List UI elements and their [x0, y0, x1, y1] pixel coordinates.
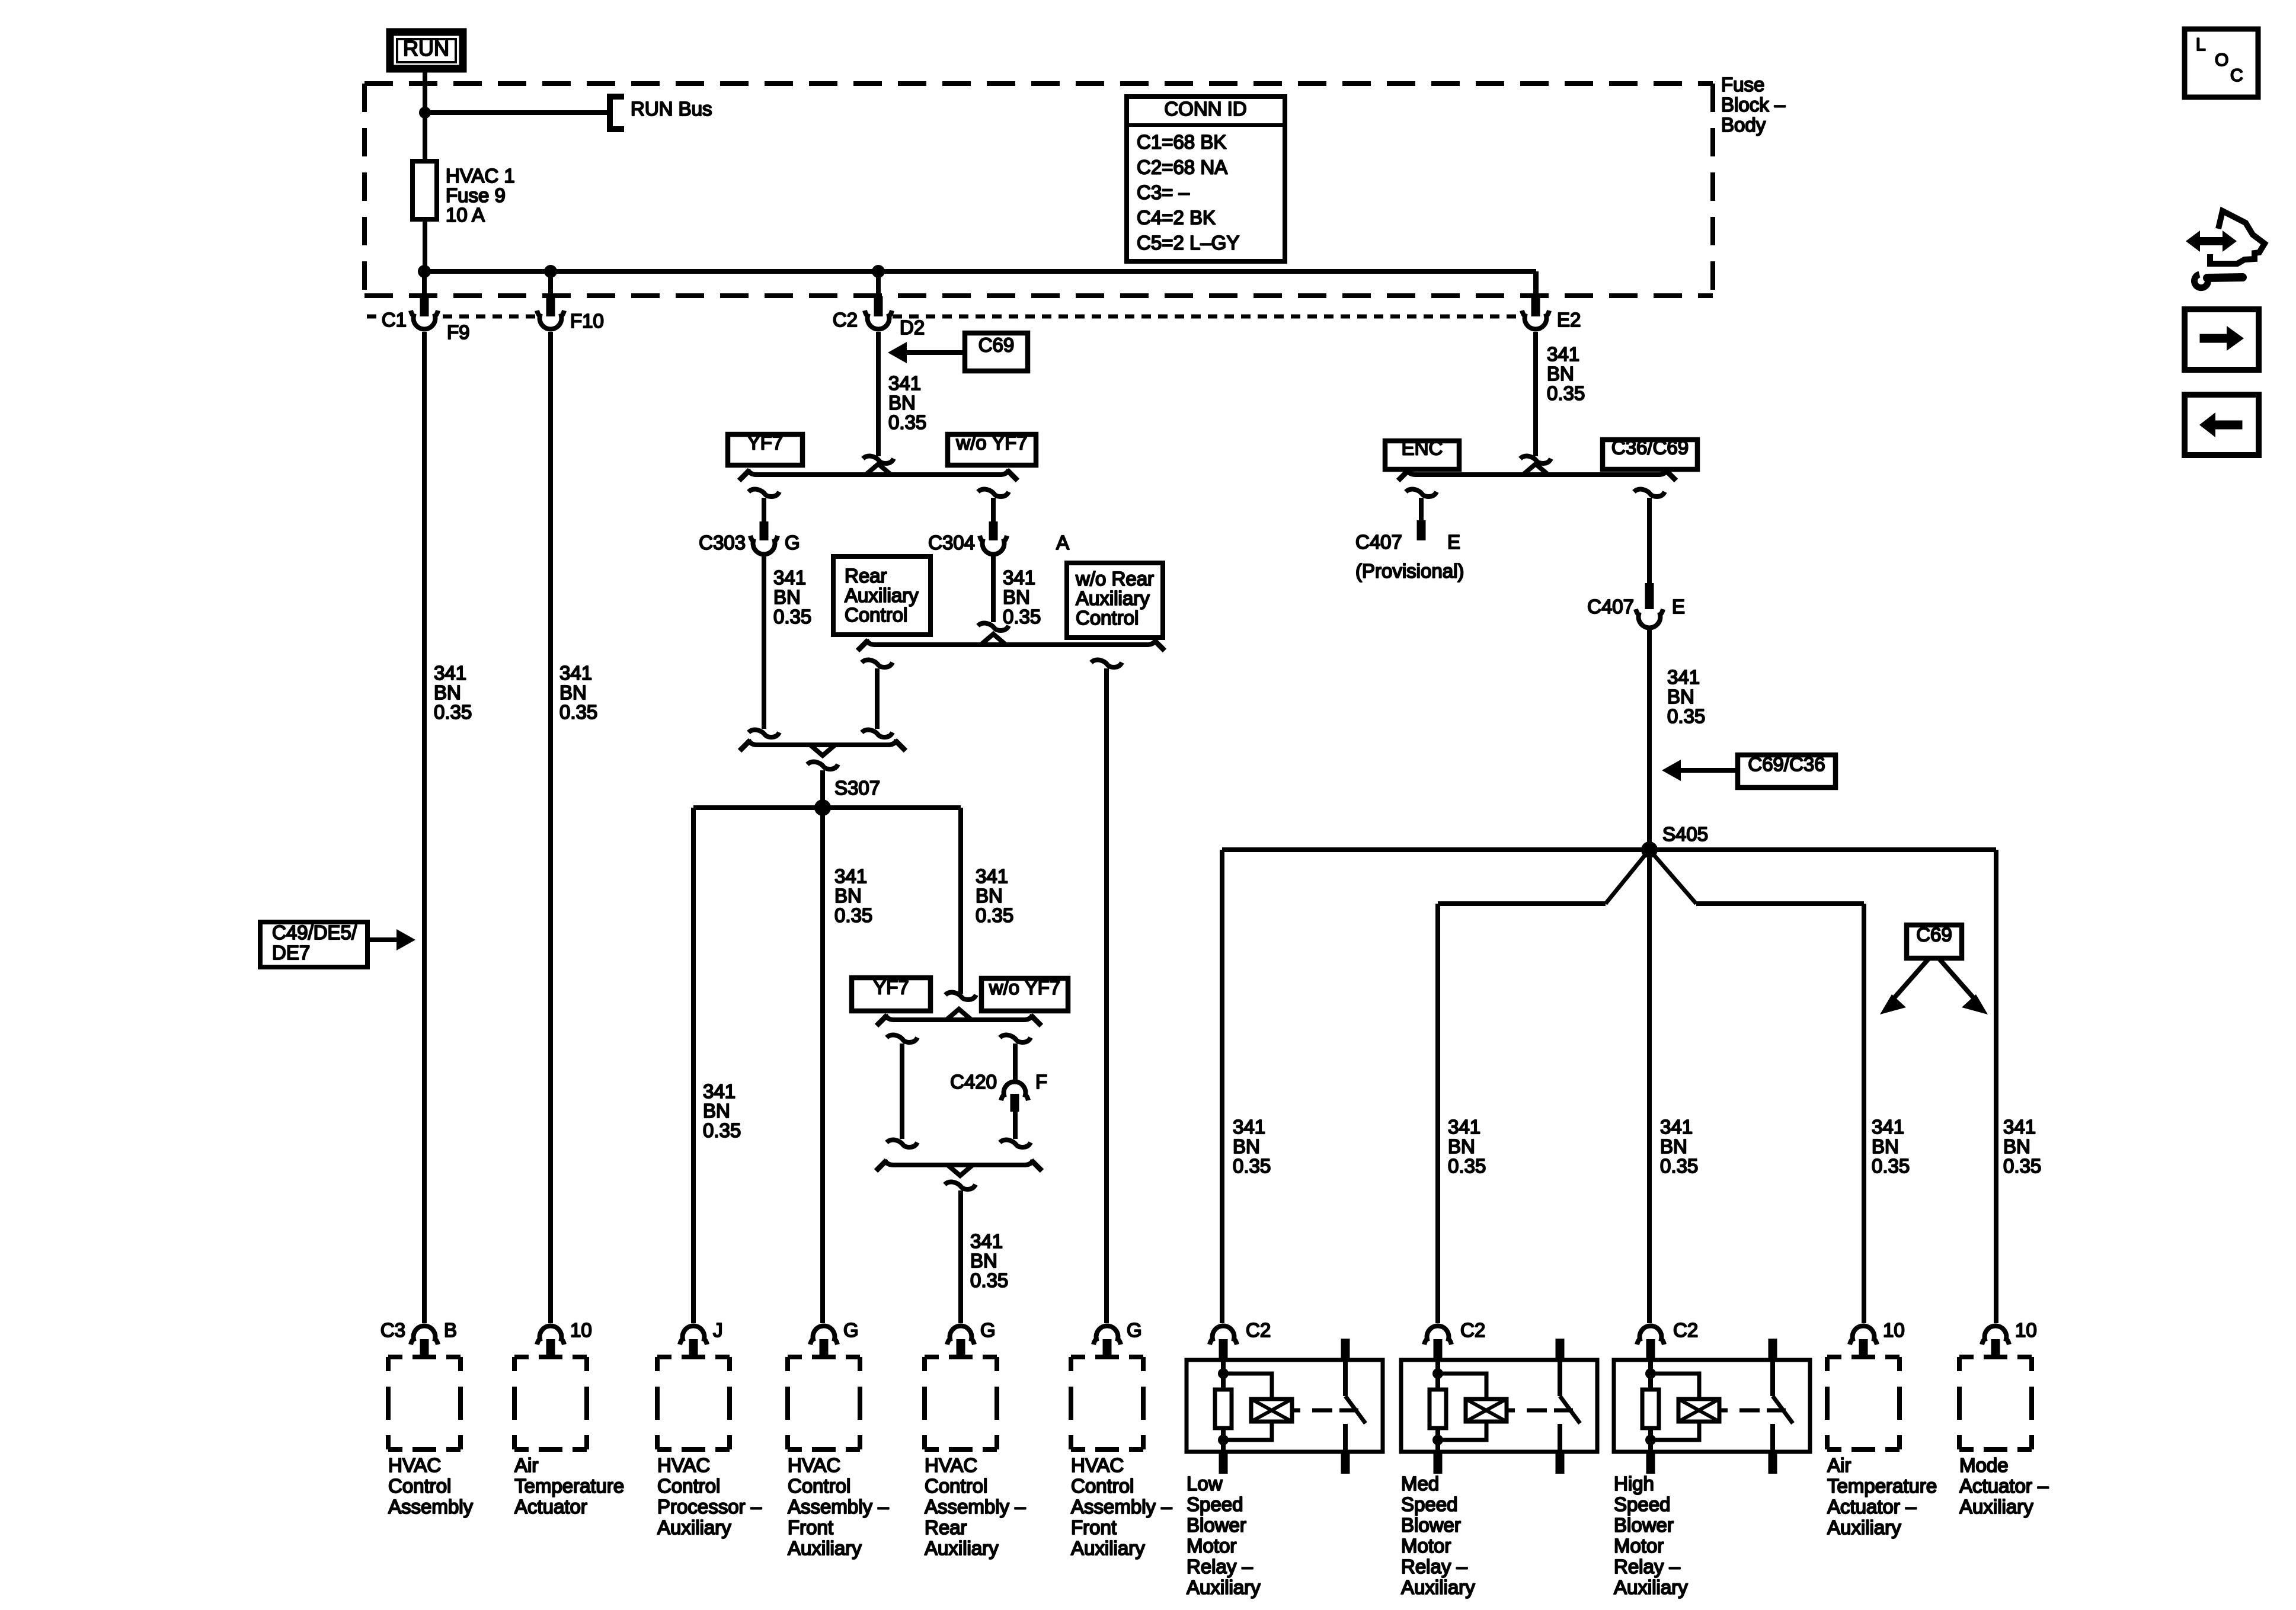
box YF7: [728, 434, 802, 465]
svg-text:ENC: ENC: [1402, 437, 1443, 459]
component HVAC Control Assembly: [411, 1326, 438, 1345]
arrow from C69: [907, 350, 965, 355]
arrow C69/C36: [1681, 768, 1738, 773]
wire S307 right branch: [958, 808, 963, 994]
svg-text:C1=68 BK: C1=68 BK: [1137, 131, 1226, 153]
svg-text:0.35: 0.35: [1547, 382, 1585, 404]
svg-text:Motor: Motor: [1614, 1535, 1664, 1557]
connector F10: [548, 271, 553, 297]
svg-text:Low: Low: [1187, 1473, 1223, 1494]
wire RUN Bus: [425, 110, 607, 115]
svg-text:0.35: 0.35: [1872, 1155, 1910, 1177]
svg-text:BN: BN: [970, 1250, 997, 1272]
svg-text:Speed: Speed: [1187, 1493, 1243, 1515]
fuse block bus wire: [424, 269, 1536, 274]
svg-text:Processor –: Processor –: [657, 1496, 762, 1518]
svg-text:Assembly –: Assembly –: [788, 1496, 889, 1518]
svg-text:C49/DE5/: C49/DE5/: [272, 921, 357, 943]
svg-text:E2: E2: [1557, 309, 1581, 331]
arrow C49/DE5/DE7: [260, 922, 367, 967]
svg-text:Relay –: Relay –: [1401, 1555, 1468, 1577]
branch ENC provisional: [1406, 489, 1437, 497]
wire RUN feed: [423, 71, 427, 161]
wire S405 to Mode Actuator Aux: [1994, 850, 1998, 1323]
svg-text:w/o YF7: w/o YF7: [955, 432, 1027, 454]
svg-text:C: C: [2230, 66, 2243, 85]
wire S405 to Med Speed relay: [1606, 850, 1649, 904]
box C69: [965, 333, 1028, 371]
svg-text:Auxiliary: Auxiliary: [1614, 1576, 1688, 1598]
svg-text:341: 341: [976, 865, 1008, 887]
svg-text:C2: C2: [833, 309, 858, 331]
svg-text:Auxiliary: Auxiliary: [1187, 1576, 1261, 1598]
fuse HVAC 1 Fuse 9 10 A: [423, 161, 427, 271]
svg-text:BN: BN: [559, 681, 587, 703]
box w/o Rear Auxiliary Control: [1067, 563, 1163, 638]
svg-text:C3= –: C3= –: [1137, 181, 1190, 203]
svg-text:Auxiliary: Auxiliary: [657, 1516, 731, 1538]
ignition RUN box: [390, 32, 463, 69]
svg-text:L: L: [2196, 35, 2206, 55]
svg-text:341: 341: [434, 662, 466, 684]
connector C1: [422, 271, 427, 297]
svg-text:BN: BN: [2003, 1135, 2030, 1157]
svg-text:C5=2 L–GY: C5=2 L–GY: [1137, 232, 1239, 254]
svg-text:C3: C3: [380, 1319, 405, 1341]
svg-text:O: O: [2215, 50, 2228, 70]
svg-text:Fuse 9: Fuse 9: [446, 184, 506, 206]
svg-text:Speed: Speed: [1614, 1493, 1670, 1515]
svg-text:10: 10: [1883, 1319, 1905, 1341]
svg-text:Actuator: Actuator: [514, 1496, 587, 1518]
branch w/o Rear Aux to HVAC Front Auxiliary: [1091, 660, 1122, 668]
fuse block body dashed box: [364, 84, 1713, 296]
svg-text:E: E: [1447, 531, 1460, 553]
svg-text:Med: Med: [1401, 1473, 1439, 1494]
svg-text:BN: BN: [1233, 1135, 1260, 1157]
svg-text:Blower: Blower: [1614, 1514, 1674, 1536]
relay High Speed Blower Motor Relay Auxiliary: [1637, 1326, 1664, 1345]
component HVAC Control Assembly Rear Auxiliary: [947, 1326, 974, 1345]
svg-text:BN: BN: [703, 1100, 730, 1122]
svg-text:BN: BN: [1667, 686, 1694, 708]
box C36/C69: [1603, 440, 1697, 469]
branch YF7 wire: [887, 1035, 917, 1043]
diagnostic icon outline: [2210, 211, 2265, 264]
diagnostic icon wrench: [2207, 277, 2243, 278]
svg-text:F: F: [1035, 1071, 1047, 1093]
svg-text:Auxiliary: Auxiliary: [845, 584, 919, 606]
svg-text:C69: C69: [1916, 924, 1952, 946]
svg-text:0.35: 0.35: [434, 701, 472, 723]
svg-text:Actuator –: Actuator –: [1827, 1496, 1917, 1518]
svg-text:0.35: 0.35: [834, 904, 872, 926]
wire F10 to Air Temperature Actuator: [548, 332, 553, 1323]
svg-text:0.35: 0.35: [703, 1119, 741, 1141]
svg-text:J: J: [713, 1319, 723, 1341]
component HVAC Control Assembly Front Auxiliary: [810, 1326, 837, 1345]
merge brace into S307: [749, 740, 897, 745]
svg-text:341: 341: [1547, 343, 1579, 365]
svg-text:0.35: 0.35: [773, 606, 811, 628]
svg-text:Auxiliary: Auxiliary: [788, 1537, 862, 1559]
svg-text:DE7: DE7: [272, 942, 310, 964]
svg-text:Front: Front: [788, 1516, 833, 1538]
arrows from C69: [1894, 958, 1929, 998]
svg-text:HVAC: HVAC: [1071, 1454, 1124, 1476]
connector C407: [1636, 609, 1663, 628]
svg-text:Auxiliary: Auxiliary: [1076, 587, 1150, 609]
svg-text:341: 341: [773, 566, 806, 588]
svg-text:341: 341: [1448, 1116, 1480, 1138]
svg-text:Auxiliary: Auxiliary: [1401, 1576, 1475, 1598]
svg-text:HVAC: HVAC: [657, 1454, 710, 1476]
wire break curl: [863, 456, 894, 464]
svg-text:Auxiliary: Auxiliary: [925, 1537, 999, 1559]
svg-text:BN: BN: [834, 885, 862, 907]
component Air Temperature Actuator Auxiliary: [1850, 1326, 1877, 1345]
svg-text:Assembly –: Assembly –: [1071, 1496, 1172, 1518]
svg-text:C407: C407: [1587, 596, 1634, 617]
svg-text:341: 341: [1660, 1116, 1693, 1138]
option brace Rear Aux / wo Rear Aux: [866, 639, 1156, 645]
wire S405 to Low Speed relay: [1220, 850, 1224, 1323]
wire C1 to HVAC Control Assembly: [422, 332, 427, 1323]
component Mode Actuator Auxiliary: [1982, 1326, 2009, 1345]
svg-text:Control: Control: [1071, 1475, 1134, 1497]
svg-text:341: 341: [834, 865, 867, 887]
svg-text:341: 341: [888, 372, 921, 394]
svg-text:C1: C1: [382, 309, 407, 331]
component HVAC Control Assembly Front Auxiliary 2: [1093, 1326, 1121, 1345]
branch w/o YF7 via C420: [1000, 1035, 1031, 1043]
wire C2 down: [876, 332, 881, 456]
option brace YF7 / wo YF7: [748, 469, 1009, 475]
svg-text:Auxiliary: Auxiliary: [1071, 1537, 1145, 1559]
svg-text:341: 341: [2003, 1116, 2036, 1138]
connector E2: [1533, 271, 1538, 297]
junction dot C2: [872, 265, 885, 278]
svg-text:Mode: Mode: [1959, 1454, 2009, 1476]
svg-text:CONN ID: CONN ID: [1164, 98, 1246, 120]
svg-text:Motor: Motor: [1187, 1535, 1236, 1557]
svg-text:Block –: Block –: [1721, 94, 1786, 116]
svg-text:B: B: [444, 1319, 457, 1341]
svg-text:0.35: 0.35: [1448, 1155, 1486, 1177]
wire to HVAC Rear Auxiliary: [958, 1190, 963, 1323]
svg-text:BN: BN: [1448, 1135, 1475, 1157]
svg-text:RUN: RUN: [403, 36, 449, 60]
svg-text:HVAC: HVAC: [925, 1454, 977, 1476]
svg-text:Fuse: Fuse: [1721, 73, 1764, 95]
svg-text:0.35: 0.35: [559, 701, 597, 723]
svg-text:S307: S307: [834, 777, 880, 799]
box w/o YF7: [948, 434, 1036, 465]
svg-text:Speed: Speed: [1401, 1493, 1457, 1515]
svg-text:HVAC 1: HVAC 1: [446, 165, 515, 187]
svg-text:BN: BN: [1003, 586, 1030, 608]
connector C2: [876, 271, 881, 297]
svg-text:S405: S405: [1662, 823, 1708, 845]
connector C420: [1001, 1082, 1028, 1100]
wire S405 to Air Temp Actuator Aux: [1649, 850, 1696, 904]
branch C303 (YF7): [749, 489, 779, 497]
svg-text:C36/C69: C36/C69: [1611, 437, 1689, 459]
svg-text:BN: BN: [888, 392, 916, 414]
svg-text:C304: C304: [928, 532, 975, 553]
svg-text:BN: BN: [1547, 363, 1574, 385]
junction RUN Bus: [419, 107, 431, 119]
svg-text:C420: C420: [950, 1071, 997, 1093]
svg-text:341: 341: [1233, 1116, 1265, 1138]
svg-text:Control: Control: [925, 1475, 987, 1497]
svg-text:Auxiliary: Auxiliary: [1959, 1496, 2033, 1518]
svg-text:C407: C407: [1355, 531, 1402, 553]
component HVAC Control Processor Auxiliary: [680, 1326, 707, 1345]
svg-text:w/o Rear: w/o Rear: [1075, 568, 1154, 590]
svg-text:341: 341: [1003, 566, 1035, 588]
svg-text:341: 341: [703, 1080, 736, 1102]
svg-text:F9: F9: [447, 321, 470, 343]
option brace ENC / C36C69: [1407, 469, 1667, 475]
box ENC: [1385, 441, 1459, 469]
box YF7 2: [852, 978, 930, 1011]
svg-text:BN: BN: [434, 681, 461, 703]
svg-text:Blower: Blower: [1401, 1514, 1461, 1536]
svg-text:Temperature: Temperature: [514, 1475, 624, 1497]
option brace YF7 second: [885, 1014, 1032, 1020]
svg-text:HVAC: HVAC: [388, 1454, 441, 1476]
junction dot F10: [544, 265, 557, 278]
svg-text:341: 341: [1667, 666, 1700, 688]
svg-text:Assembly –: Assembly –: [925, 1496, 1026, 1518]
merge brace below C420: [885, 1160, 1033, 1165]
svg-text:0.35: 0.35: [888, 411, 926, 433]
svg-text:C303: C303: [699, 532, 746, 553]
component Air Temperature Actuator: [537, 1326, 564, 1345]
svg-text:G: G: [843, 1319, 859, 1341]
svg-text:YF7: YF7: [747, 432, 784, 454]
svg-text:341: 341: [559, 662, 592, 684]
svg-text:Actuator –: Actuator –: [1959, 1475, 2049, 1497]
svg-text:10 A: 10 A: [446, 204, 485, 226]
svg-text:w/o YF7: w/o YF7: [989, 977, 1060, 998]
svg-text:High: High: [1614, 1473, 1654, 1494]
svg-text:BN: BN: [1660, 1135, 1687, 1157]
svg-text:0.35: 0.35: [1667, 705, 1705, 727]
connector C303: [750, 536, 778, 554]
svg-text:Air: Air: [514, 1454, 538, 1476]
RUN Bus terminal: [610, 97, 624, 129]
svg-text:Motor: Motor: [1401, 1535, 1451, 1557]
svg-text:BN: BN: [976, 885, 1003, 907]
svg-text:0.35: 0.35: [1003, 606, 1041, 628]
svg-text:BN: BN: [773, 586, 801, 608]
svg-text:F10: F10: [570, 310, 604, 332]
svg-text:Relay –: Relay –: [1187, 1555, 1253, 1577]
svg-text:G: G: [1127, 1319, 1142, 1341]
svg-text:Control: Control: [657, 1475, 720, 1497]
svg-text:C2: C2: [1246, 1319, 1271, 1341]
forward arrow icon: [2185, 309, 2259, 370]
wire S405 to High Speed relay: [1647, 850, 1652, 1323]
svg-text:0.35: 0.35: [2003, 1155, 2041, 1177]
svg-text:341: 341: [1872, 1116, 1904, 1138]
CONN ID table: [1127, 97, 1285, 261]
svg-text:Control: Control: [845, 604, 907, 626]
svg-text:Rear: Rear: [925, 1516, 967, 1538]
svg-text:C69: C69: [978, 334, 1015, 356]
svg-text:RUN Bus: RUN Bus: [631, 98, 712, 120]
svg-text:Relay –: Relay –: [1614, 1555, 1681, 1577]
connector C304: [980, 536, 1007, 554]
box C69/C36: [1738, 755, 1835, 788]
svg-text:A: A: [1056, 532, 1069, 553]
svg-text:Auxiliary: Auxiliary: [1827, 1516, 1901, 1538]
box C69 lower: [1907, 925, 1962, 958]
svg-text:G: G: [785, 532, 800, 553]
svg-text:10: 10: [2015, 1319, 2037, 1341]
svg-text:Assembly: Assembly: [388, 1496, 474, 1518]
junction dot C1: [418, 265, 431, 278]
svg-text:C2: C2: [1460, 1319, 1485, 1341]
svg-text:Air: Air: [1827, 1454, 1851, 1476]
back arrow icon: [2185, 395, 2259, 455]
svg-text:0.35: 0.35: [976, 904, 1013, 926]
wire E2 down: [1533, 332, 1538, 456]
svg-text:C2=68 NA: C2=68 NA: [1137, 156, 1227, 178]
wire S307 to HVAC Control Processor: [691, 808, 696, 1323]
svg-text:341: 341: [970, 1230, 1003, 1252]
svg-text:0.35: 0.35: [1233, 1155, 1271, 1177]
box w/o YF7 2: [981, 978, 1068, 1011]
LOC icon: [2185, 29, 2258, 97]
svg-text:(Provisional): (Provisional): [1355, 560, 1464, 582]
svg-text:Control: Control: [788, 1475, 850, 1497]
branch C304 (w/o YF7): [978, 489, 1009, 497]
svg-text:Temperature: Temperature: [1827, 1475, 1937, 1497]
svg-text:Front: Front: [1071, 1516, 1117, 1538]
svg-text:Blower: Blower: [1187, 1514, 1246, 1536]
svg-text:E: E: [1672, 596, 1685, 617]
svg-text:0.35: 0.35: [1660, 1155, 1698, 1177]
svg-text:C4=2 BK: C4=2 BK: [1137, 207, 1216, 229]
relay Low Speed Blower Motor Relay Auxiliary: [1210, 1326, 1237, 1345]
svg-text:Rear: Rear: [845, 565, 887, 587]
svg-text:Body: Body: [1721, 114, 1766, 136]
branch left of rear-aux option: [862, 660, 893, 668]
svg-text:10: 10: [570, 1319, 592, 1341]
relay Med Speed Blower Motor Relay Auxiliary: [1424, 1326, 1451, 1345]
connector line dotted: [367, 315, 1518, 319]
diagnostic icon double arrow: [2186, 231, 2237, 252]
svg-text:YF7: YF7: [873, 977, 909, 998]
svg-text:HVAC: HVAC: [788, 1454, 840, 1476]
svg-text:BN: BN: [1872, 1135, 1899, 1157]
branch C36/C69: [1634, 489, 1665, 497]
svg-text:Control: Control: [1076, 607, 1139, 629]
svg-text:0.35: 0.35: [970, 1269, 1008, 1291]
wire S307 to HVAC Front Auxiliary: [820, 808, 825, 1323]
svg-text:C69/C36: C69/C36: [1748, 753, 1825, 775]
svg-text:Control: Control: [388, 1475, 451, 1497]
box Rear Auxiliary Control: [833, 556, 930, 635]
svg-text:D2: D2: [900, 316, 925, 338]
svg-text:C2: C2: [1673, 1319, 1698, 1341]
svg-text:G: G: [980, 1319, 996, 1341]
